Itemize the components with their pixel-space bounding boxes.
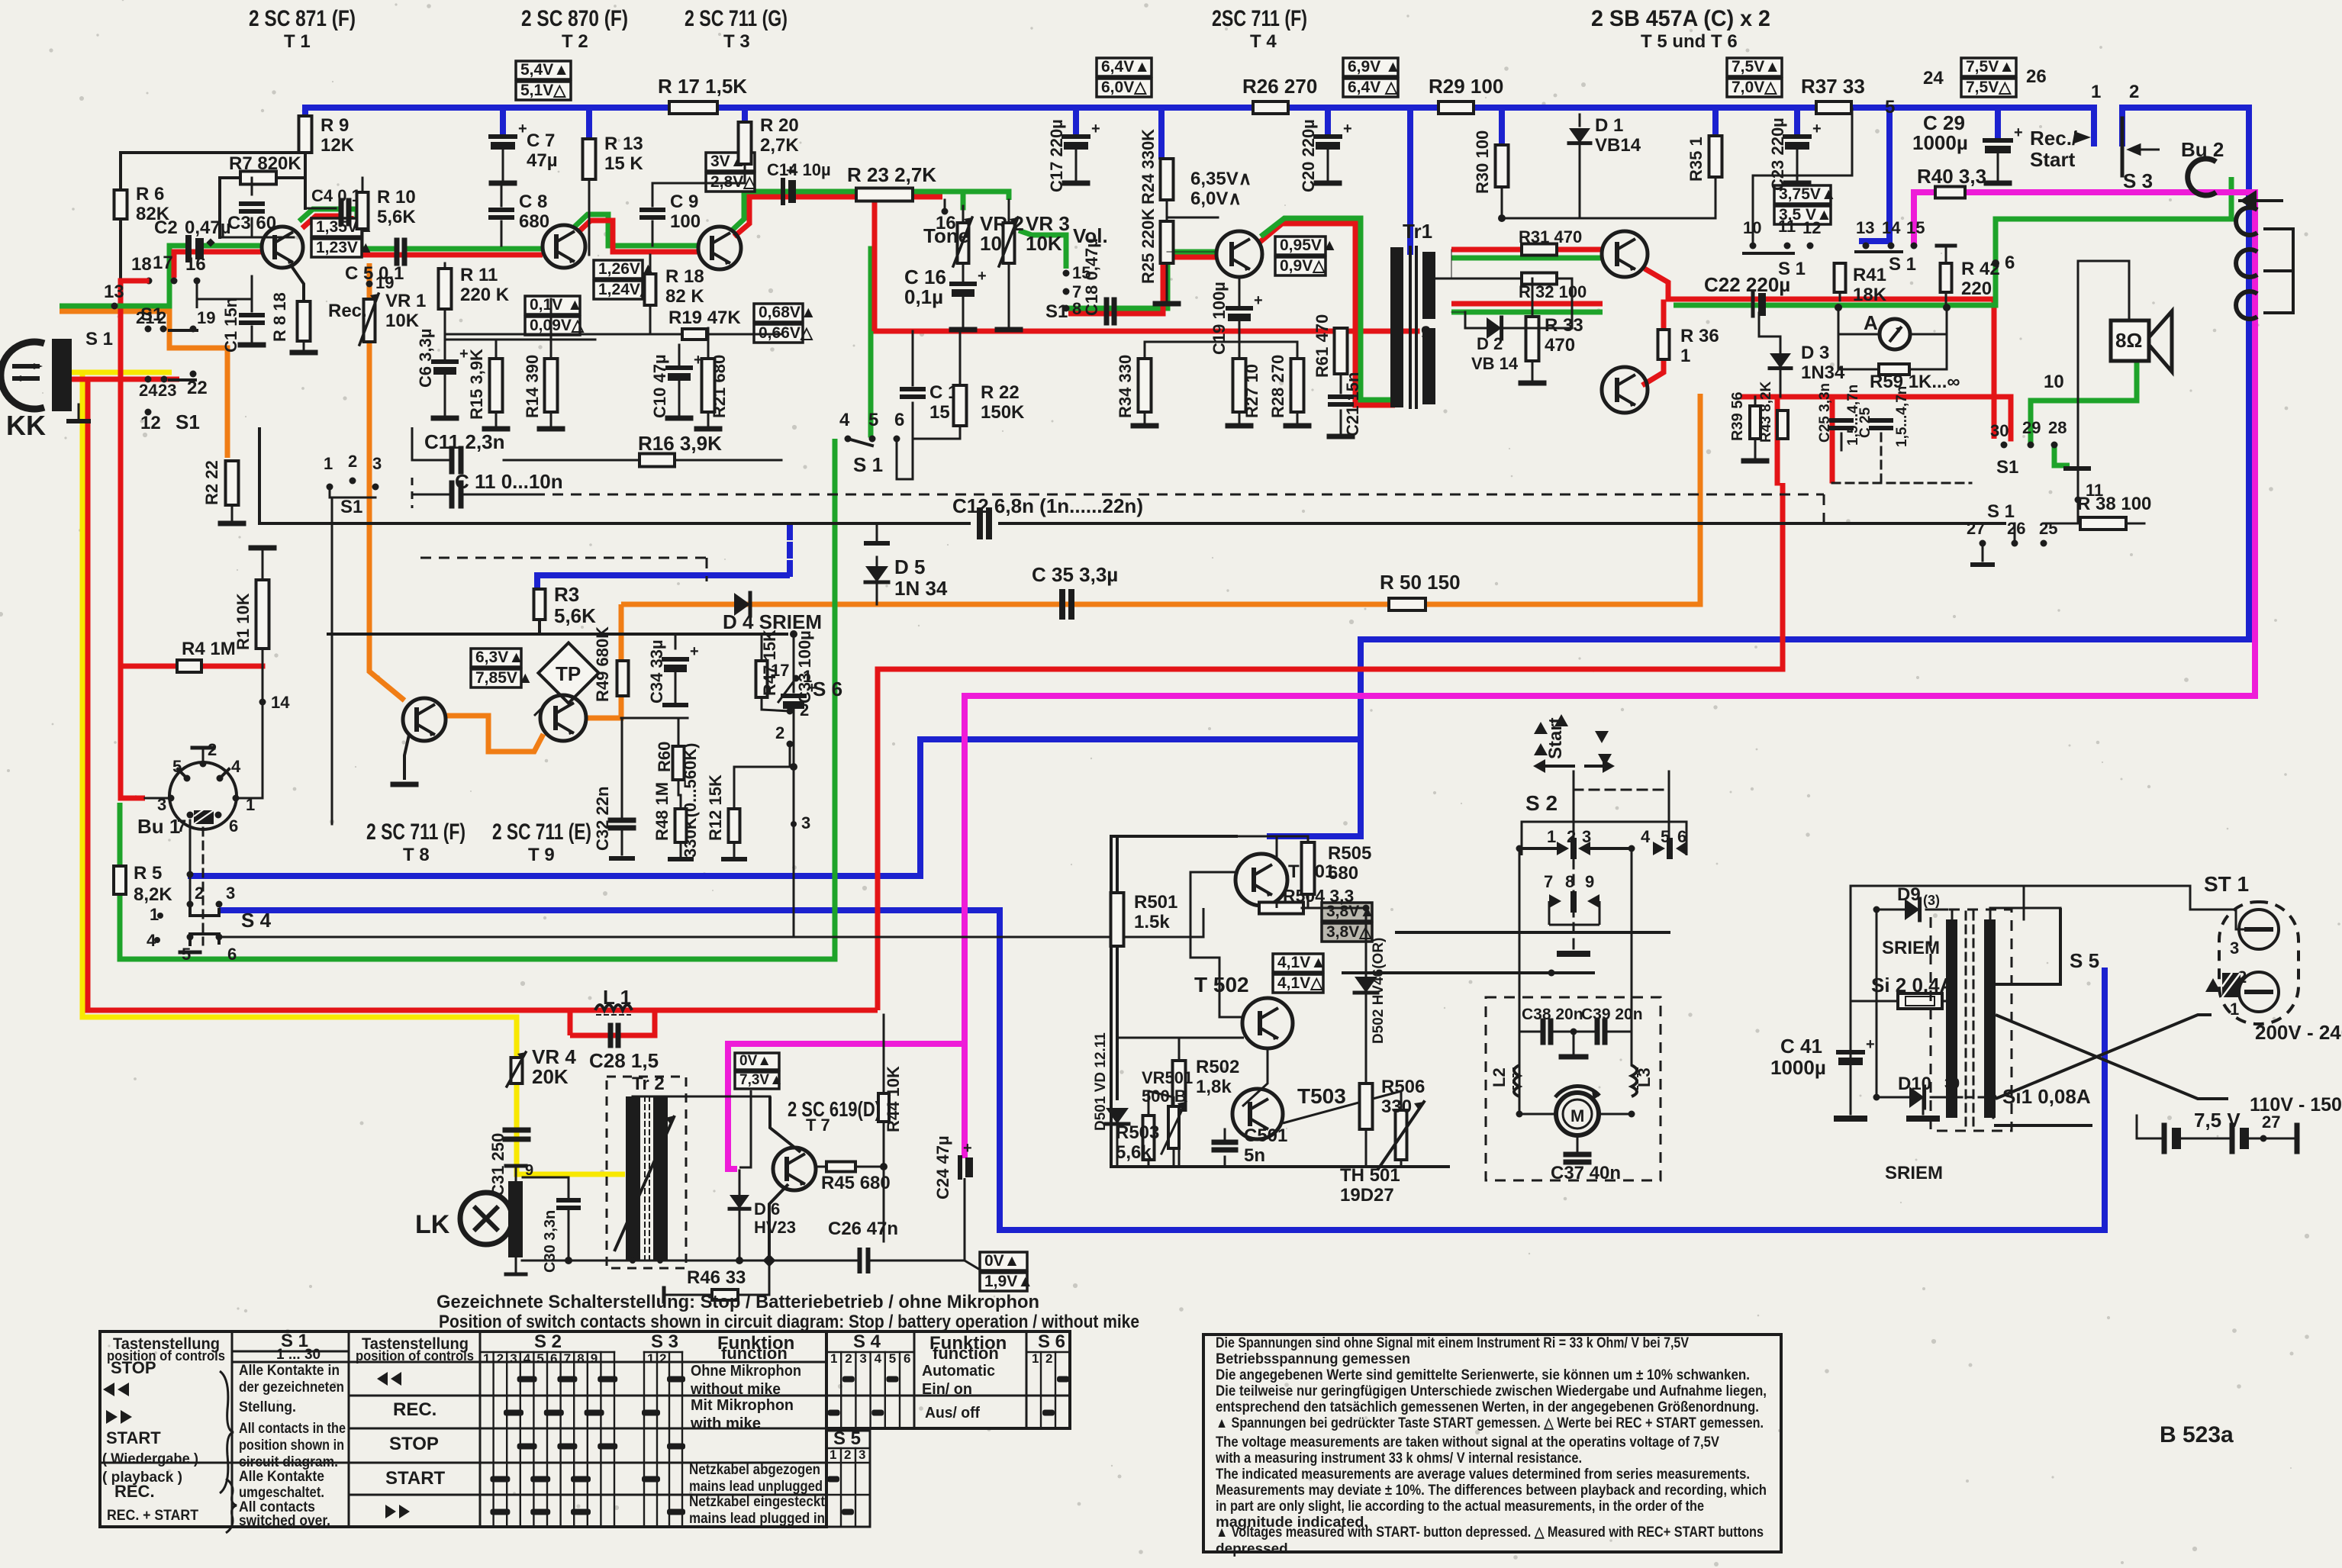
wire red line to contact 9 bbox=[875, 329, 1417, 334]
resistor R504 3,3 bbox=[1259, 903, 1303, 914]
diode D501 VD1211 bbox=[1106, 1108, 1129, 1124]
test point TP diamond bbox=[538, 642, 598, 703]
voltage box 0V/7,3V bbox=[735, 1053, 779, 1070]
svg-text:6,0V∧: 6,0V∧ bbox=[1190, 188, 1242, 209]
resistor R31 470 bbox=[1522, 244, 1557, 256]
svg-text:R4 1M: R4 1M bbox=[182, 639, 236, 659]
svg-text:18K: 18K bbox=[1853, 285, 1887, 305]
svg-text:REC. + START: REC. + START bbox=[107, 1508, 198, 1524]
svg-text:R 9: R 9 bbox=[321, 115, 349, 136]
svg-text:B 523a: B 523a bbox=[2160, 1422, 2234, 1447]
connector Bu1 bbox=[169, 762, 237, 829]
svg-text:+: + bbox=[1343, 121, 1352, 137]
svg-text:Die teilweise nur geringfügige: Die teilweise nur geringfügigen Untersch… bbox=[1216, 1383, 1767, 1399]
svg-text:1: 1 bbox=[1032, 1351, 1039, 1366]
label 6 green node bbox=[1992, 259, 1999, 267]
svg-text:T 502: T 502 bbox=[1194, 973, 1249, 997]
svg-text:Die Spannungen sind ohne Signa: Die Spannungen sind ohne Signal mit eine… bbox=[1216, 1335, 1689, 1351]
svg-text:All contacts in the: All contacts in the bbox=[239, 1421, 346, 1437]
diode D5 1N34 bbox=[876, 523, 878, 540]
capacitor C31 250 bbox=[505, 1128, 528, 1133]
svg-text:82K: 82K bbox=[136, 204, 170, 224]
svg-text:Tr1: Tr1 bbox=[1403, 220, 1432, 243]
resistor R20 2,7K bbox=[739, 122, 752, 164]
svg-text:Stellung.: Stellung. bbox=[239, 1399, 296, 1415]
svg-text:R503: R503 bbox=[1116, 1122, 1159, 1143]
svg-text:S 3: S 3 bbox=[2123, 169, 2153, 192]
svg-text:0,9V△: 0,9V△ bbox=[1280, 257, 1326, 275]
svg-text:10K: 10K bbox=[1026, 232, 1062, 255]
svg-text:6,3V▲: 6,3V▲ bbox=[475, 649, 524, 666]
svg-text:R44 10K: R44 10K bbox=[884, 1066, 903, 1132]
wire blue drop to R30 bbox=[1499, 108, 1505, 143]
svg-text:2SC 711 (F): 2SC 711 (F) bbox=[1212, 6, 1307, 31]
svg-text:C 8: C 8 bbox=[519, 192, 547, 212]
wire D4 node line bbox=[328, 633, 787, 636]
svg-text:9: 9 bbox=[591, 1351, 598, 1366]
svg-text:R46 33: R46 33 bbox=[687, 1267, 746, 1288]
svg-text:3,75V▲: 3,75V▲ bbox=[1779, 185, 1837, 203]
table row mode labels bbox=[377, 1372, 401, 1386]
svg-text:position shown in: position shown in bbox=[239, 1438, 344, 1454]
svg-text:Mit Mikrophon: Mit Mikrophon bbox=[691, 1397, 794, 1414]
svg-text:7: 7 bbox=[177, 816, 186, 836]
wire red C25 network bbox=[1743, 394, 2011, 400]
svg-text:R24 330K: R24 330K bbox=[1139, 129, 1158, 204]
black stub contact 16 bbox=[196, 281, 198, 308]
wire blue bus right section via S3 bbox=[1267, 108, 2249, 836]
svg-text:+: + bbox=[1254, 292, 1263, 309]
svg-text:+: + bbox=[690, 643, 699, 660]
wire red audio T1 to T2 bbox=[302, 216, 342, 228]
svg-text:7,0V△: 7,0V△ bbox=[1732, 79, 1777, 96]
svg-text:1,5...4,7n: 1,5...4,7n bbox=[1894, 386, 1910, 447]
resistor R21 680 bbox=[702, 359, 715, 412]
notes text box bbox=[1203, 1335, 1781, 1552]
svg-text:R29 100: R29 100 bbox=[1429, 75, 1503, 98]
wire yellow VR4-C31 to Tr2 bbox=[517, 1083, 625, 1174]
potentiometer VR1 10K bbox=[366, 281, 373, 288]
resistor R60 330K bbox=[673, 746, 685, 780]
capacitor C25 3,3n bbox=[1831, 418, 1851, 423]
voltage box 7,5V right bbox=[1961, 58, 2016, 76]
svg-text:C37 40n: C37 40n bbox=[1551, 1163, 1621, 1183]
resistor R49 680K bbox=[617, 661, 629, 696]
transformer connections bbox=[1951, 910, 1954, 919]
svg-text:T 8: T 8 bbox=[403, 845, 430, 865]
capacitor C28 1,5 bbox=[608, 1025, 614, 1045]
svg-text:200V - 240V~: 200V - 240V~ bbox=[2255, 1021, 2342, 1044]
resistor R42 220 bbox=[1941, 263, 1952, 292]
svg-text:0,09V△: 0,09V△ bbox=[530, 317, 585, 334]
svg-text:6: 6 bbox=[550, 1351, 557, 1366]
wire T2 emitter bias rail bbox=[445, 339, 595, 341]
svg-text:5: 5 bbox=[868, 410, 878, 430]
svg-text:LK: LK bbox=[415, 1210, 450, 1239]
wire plug top bbox=[2190, 886, 2247, 929]
svg-text:1000µ: 1000µ bbox=[1770, 1056, 1826, 1079]
svg-text:5,4V▲: 5,4V▲ bbox=[520, 61, 569, 79]
svg-text:C39 20n: C39 20n bbox=[1581, 1006, 1643, 1023]
S1 contacts 10 11 12 bbox=[1750, 243, 1757, 250]
dashed selection box bbox=[534, 494, 1824, 496]
wire Tr2 bottom bbox=[632, 1260, 633, 1261]
svg-text:R505: R505 bbox=[1328, 843, 1371, 864]
svg-text:1: 1 bbox=[483, 1351, 490, 1366]
svg-text:C12 6,8n (1n......22n): C12 6,8n (1n......22n) bbox=[952, 494, 1143, 517]
svg-text:D 6: D 6 bbox=[754, 1199, 780, 1219]
transistor T502 bbox=[1242, 998, 1293, 1048]
potentiometer VR2 Tone bbox=[962, 206, 965, 223]
svg-text:R16 3,9K: R16 3,9K bbox=[638, 432, 722, 455]
svg-text:Die angegebenen Werte sind gem: Die angegebenen Werte sind gemittelte Se… bbox=[1216, 1367, 1750, 1383]
potentiometer VR4 20K bbox=[511, 1058, 523, 1083]
transformer Tr2 dashed box bbox=[607, 1077, 686, 1268]
svg-text:R61 470: R61 470 bbox=[1313, 314, 1332, 378]
svg-text:1.5k: 1.5k bbox=[1134, 912, 1170, 932]
voltage box 1,35V bbox=[311, 218, 362, 237]
svg-text:6: 6 bbox=[229, 816, 238, 836]
svg-text:2 SC 711 (G): 2 SC 711 (G) bbox=[685, 6, 788, 31]
wire T502 base link bbox=[1190, 916, 1242, 1017]
svg-text:2: 2 bbox=[845, 1351, 852, 1366]
wire C24 to measure box bbox=[965, 1178, 980, 1270]
svg-text:C22 220µ: C22 220µ bbox=[1704, 273, 1790, 296]
resistor R12 15K bbox=[729, 809, 740, 842]
capacitor C16 0,1u bbox=[952, 282, 974, 286]
resistor R10 5,6K bbox=[357, 192, 369, 229]
capacitor C15 15n bbox=[912, 331, 914, 385]
capacitor C35 3,3u bbox=[1059, 592, 1065, 617]
svg-text:6,35V∧: 6,35V∧ bbox=[1190, 169, 1252, 189]
svg-text:C 11 0...10n: C 11 0...10n bbox=[455, 470, 563, 493]
resistor R502 1,8k bbox=[1173, 1061, 1186, 1110]
svg-text:C26 47n: C26 47n bbox=[828, 1219, 898, 1239]
svg-text:entsprechend den tatsächlich g: entsprechend den tatsächlich gemessenen … bbox=[1216, 1399, 1759, 1415]
svg-text:12: 12 bbox=[140, 413, 161, 433]
svg-text:+: + bbox=[2014, 124, 2023, 141]
wire green audio path head to T1 bbox=[60, 246, 188, 306]
svg-text:R 20: R 20 bbox=[760, 115, 799, 136]
wire green+red T4 to Tr1 bbox=[1259, 224, 1395, 405]
wire red from head lower contact bbox=[70, 377, 179, 382]
S2 contact box bbox=[1522, 822, 1686, 855]
svg-text:Alle Kontakte in: Alle Kontakte in bbox=[239, 1363, 340, 1379]
resistor R37 33 bbox=[1816, 101, 1851, 114]
resistor R45 680 bbox=[826, 1162, 855, 1172]
S4 lower contacts 5 6 bbox=[187, 934, 194, 941]
svg-text:R59 1K...∞: R59 1K...∞ bbox=[1870, 372, 1960, 392]
wire blue drop to C7 bbox=[500, 108, 506, 136]
svg-text:0,68V▲: 0,68V▲ bbox=[759, 304, 817, 321]
svg-text:2: 2 bbox=[2129, 82, 2139, 102]
svg-text:R14 390: R14 390 bbox=[523, 355, 542, 418]
S2 direction arrows bbox=[1533, 759, 1545, 773]
mains transformer core bbox=[1946, 919, 1957, 1118]
svg-text:T 7: T 7 bbox=[806, 1116, 830, 1135]
transistor T6 bbox=[1602, 367, 1648, 413]
svg-text:1: 1 bbox=[647, 1351, 654, 1366]
wire orange from head to R2 bbox=[60, 311, 227, 458]
svg-text:C24 47µ: C24 47µ bbox=[933, 1135, 952, 1199]
svg-text:Ein/ on: Ein/ on bbox=[922, 1381, 972, 1398]
svg-text:without mike: without mike bbox=[690, 1381, 781, 1398]
svg-text:T503: T503 bbox=[1297, 1084, 1346, 1108]
S1 contacts 15/7/8 bbox=[1063, 270, 1070, 277]
capacitor C18 0,47u bbox=[1104, 300, 1110, 323]
svg-text:Position of switch contacts: Position of switch contacts shown in cir… bbox=[439, 1312, 1139, 1332]
svg-text:15: 15 bbox=[1906, 218, 1925, 237]
contact 13 on head pair bbox=[111, 303, 118, 310]
svg-text:ST 1: ST 1 bbox=[2204, 872, 2249, 896]
wire red branch to R4/R1 bbox=[121, 664, 263, 669]
svg-text:5: 5 bbox=[1885, 97, 1895, 118]
svg-text:100: 100 bbox=[670, 211, 701, 232]
svg-text:T 2: T 2 bbox=[562, 31, 588, 52]
svg-text:T 4: T 4 bbox=[1250, 31, 1277, 52]
resistor R50 150 bbox=[1389, 598, 1425, 610]
wire S1-10 to bus area bbox=[1753, 108, 1852, 246]
svg-text:mains lead plugged in: mains lead plugged in bbox=[689, 1511, 825, 1527]
svg-text:C18 0,47µ: C18 0,47µ bbox=[1082, 238, 1101, 316]
diode D6 HV23 bbox=[739, 1170, 741, 1195]
svg-text:3: 3 bbox=[510, 1351, 517, 1366]
wire red long left erase feed bbox=[88, 379, 570, 1010]
svg-text:2: 2 bbox=[659, 1351, 666, 1366]
diode D4 SRIEM bbox=[734, 593, 750, 616]
svg-text:R12 15K: R12 15K bbox=[706, 774, 725, 841]
svg-text:C 7: C 7 bbox=[527, 130, 555, 151]
wire blue S5 to S4 contact 3 bbox=[219, 910, 2105, 1230]
svg-text:2: 2 bbox=[348, 452, 357, 471]
svg-text:0,95V▲: 0,95V▲ bbox=[1280, 237, 1338, 254]
svg-text:47µ: 47µ bbox=[527, 150, 558, 171]
svg-text:24: 24 bbox=[139, 381, 158, 400]
svg-text:with mike: with mike bbox=[690, 1415, 761, 1432]
resistor R29 100 bbox=[1438, 101, 1474, 114]
resistor R44 10K bbox=[878, 1093, 889, 1122]
svg-text:2: 2 bbox=[157, 308, 166, 327]
svg-text:8: 8 bbox=[1072, 299, 1081, 318]
voltage box 0,68V bbox=[754, 304, 803, 322]
svg-text:R28 270: R28 270 bbox=[1268, 355, 1287, 418]
svg-text:2: 2 bbox=[775, 723, 784, 742]
svg-text:2 SB 457A (C) x 2: 2 SB 457A (C) x 2 bbox=[1591, 6, 1770, 31]
svg-text:470: 470 bbox=[1545, 335, 1575, 356]
svg-text:1: 1 bbox=[2091, 82, 2101, 102]
ground T8 bbox=[404, 735, 409, 780]
resistor R39 56 bbox=[1750, 406, 1761, 439]
wire red audio path head to T1 bbox=[174, 252, 263, 278]
svg-text:1,5...4,7n: 1,5...4,7n bbox=[1845, 385, 1861, 446]
svg-text:S1: S1 bbox=[1045, 301, 1068, 322]
svg-text:Bu 1: Bu 1 bbox=[137, 815, 180, 838]
resistor R34 330 bbox=[1139, 359, 1152, 412]
svg-text:M: M bbox=[1570, 1106, 1584, 1125]
table S3 bars bbox=[667, 1376, 685, 1383]
S1 contacts 1 2 3 below VR1 bbox=[327, 484, 333, 491]
wire +7.5V blue supply bus bbox=[305, 108, 2094, 122]
svg-text:R 6: R 6 bbox=[136, 184, 164, 204]
wire green S1-28 ground hook bbox=[2054, 445, 2070, 465]
wire Bu1 pin1 to R1 bbox=[236, 732, 263, 798]
svg-text:0,1µ: 0,1µ bbox=[904, 285, 943, 308]
capacitor C10 47u bbox=[678, 359, 681, 366]
svg-text:R26 270: R26 270 bbox=[1242, 75, 1317, 98]
svg-text:220 K: 220 K bbox=[460, 285, 510, 305]
svg-text:14: 14 bbox=[271, 693, 290, 712]
capacitor C11 2,3n bbox=[449, 449, 455, 472]
svg-text:S 6: S 6 bbox=[1038, 1331, 1065, 1352]
wire blue drop to C17 bbox=[1073, 108, 1079, 136]
svg-text:R25 220K: R25 220K bbox=[1139, 208, 1158, 284]
svg-text:R 33: R 33 bbox=[1545, 315, 1583, 336]
svg-text:switched over.: switched over. bbox=[239, 1513, 330, 1529]
svg-text:6: 6 bbox=[894, 410, 904, 430]
svg-text:REC.: REC. bbox=[114, 1482, 155, 1501]
svg-text:R21 680: R21 680 bbox=[710, 355, 729, 418]
resistor R503 5,6k bbox=[1143, 1116, 1155, 1160]
resistor R1 10K bbox=[262, 551, 264, 580]
diode D1 VB14 bbox=[1579, 114, 1581, 126]
svg-text:6,9V ▲: 6,9V ▲ bbox=[1348, 58, 1401, 76]
resistor R19 47K bbox=[446, 333, 682, 336]
transistor T1 bbox=[262, 227, 303, 268]
wire blue drop to R20 bbox=[742, 108, 748, 122]
diode D3 1N34 bbox=[1780, 336, 1782, 353]
wire blue drop to R13 bbox=[586, 108, 592, 137]
S1 contacts 4 5 6 bbox=[845, 436, 852, 443]
svg-text:D9: D9 bbox=[1897, 884, 1921, 905]
wire green S1-29 to speaker bbox=[2031, 362, 2137, 445]
resistor R43 8,2K bbox=[1777, 411, 1788, 439]
svg-text:C11 2,3n: C11 2,3n bbox=[424, 430, 505, 453]
svg-text:6: 6 bbox=[227, 945, 237, 964]
svg-text:C21 15n: C21 15n bbox=[1343, 372, 1362, 436]
svg-text:function: function bbox=[721, 1344, 788, 1363]
svg-text:T 9: T 9 bbox=[528, 845, 555, 865]
switch S4 contacts bbox=[187, 871, 194, 878]
table2 bars bbox=[842, 1376, 855, 1383]
wire T7 collector bbox=[770, 1096, 801, 1152]
svg-text:R 5: R 5 bbox=[134, 863, 162, 884]
svg-text:REC.: REC. bbox=[393, 1399, 437, 1420]
svg-text:C501: C501 bbox=[1244, 1125, 1287, 1146]
svg-text:13: 13 bbox=[104, 282, 124, 302]
capacitor C32 22n bbox=[610, 818, 633, 823]
coil LK erase head bbox=[460, 1193, 512, 1244]
capacitor C19 100u bbox=[1239, 277, 1241, 305]
svg-text:Gezeichnete Schalterstellung:: Gezeichnete Schalterstellung: Stop / Bat… bbox=[437, 1292, 1039, 1312]
resistor R33 470 bbox=[1532, 279, 1534, 317]
svg-text:VR501: VR501 bbox=[1142, 1068, 1193, 1087]
S1 contact 16 mid bbox=[942, 208, 949, 215]
svg-text:2: 2 bbox=[844, 1447, 851, 1462]
wire blue drop to S1 contact 14 bbox=[1859, 108, 1889, 241]
capacitor C6 3,3u bbox=[433, 359, 456, 364]
wire T1 bias top bbox=[121, 151, 305, 154]
resistor R30 100 bbox=[1496, 145, 1509, 187]
speaker 8ohm bbox=[2111, 320, 2149, 361]
svg-text:R7 820K: R7 820K bbox=[229, 153, 301, 174]
svg-text:6,4V▲: 6,4V▲ bbox=[1101, 58, 1150, 76]
wire red riser to output network bbox=[878, 483, 1783, 1010]
svg-text:S 2: S 2 bbox=[1525, 791, 1558, 815]
capacitor C9 100 bbox=[642, 208, 663, 212]
svg-text:5n: 5n bbox=[1244, 1145, 1265, 1166]
thermistor TH501 19D27 bbox=[1396, 1110, 1407, 1160]
svg-text:( Wiedergabe ): ( Wiedergabe ) bbox=[102, 1451, 198, 1467]
svg-text:1N34: 1N34 bbox=[1801, 362, 1845, 383]
svg-text:circuit diagram.: circuit diagram. bbox=[239, 1454, 338, 1470]
capacitor C22 220u bbox=[1751, 293, 1755, 316]
wire green audio T1 to T2 via C4/C5 bbox=[299, 209, 340, 221]
svg-text:function: function bbox=[933, 1344, 999, 1363]
LK contacts bbox=[515, 1167, 517, 1181]
svg-text:4,1V△: 4,1V△ bbox=[1277, 974, 1323, 992]
capacitor C7 47u bbox=[491, 134, 515, 139]
resistor R3 5,6K bbox=[534, 589, 546, 620]
table S5 block bbox=[826, 1431, 870, 1527]
wire Tr2 top rail bbox=[633, 1096, 770, 1098]
svg-text:Tone: Tone bbox=[923, 224, 969, 247]
svg-text:C 41: C 41 bbox=[1780, 1035, 1822, 1058]
svg-text:8Ω: 8Ω bbox=[2115, 329, 2142, 352]
wire T7 emitter bbox=[769, 1184, 788, 1261]
wire Tr1 secondary taps bbox=[1435, 278, 1451, 280]
wire red T6 via R36 bbox=[1642, 361, 1664, 385]
svg-text:10K: 10K bbox=[385, 311, 420, 331]
svg-text:C30 3,3n: C30 3,3n bbox=[542, 1210, 559, 1273]
capacitor C5 0,1 bbox=[395, 240, 400, 263]
svg-text:12: 12 bbox=[1802, 218, 1821, 237]
svg-text:R 36: R 36 bbox=[1680, 326, 1719, 346]
svg-text:C14 10µ: C14 10µ bbox=[767, 160, 831, 179]
resistor R5 8,2K bbox=[114, 866, 126, 894]
meter loop wiring bbox=[1838, 307, 1879, 369]
svg-text:R60: R60 bbox=[655, 742, 674, 772]
transistor T8 bbox=[403, 698, 446, 741]
svg-text:1: 1 bbox=[803, 667, 812, 686]
capacitor C4 0,1u bbox=[339, 201, 344, 224]
svg-text:S1: S1 bbox=[340, 497, 362, 517]
svg-text:SRIEM: SRIEM bbox=[1885, 1163, 1943, 1183]
wire orange T8-T9 link bbox=[446, 716, 543, 752]
wire middle links bbox=[259, 523, 260, 634]
resistor R35 1 bbox=[1709, 136, 1722, 177]
svg-text:5,1V△: 5,1V△ bbox=[520, 82, 566, 99]
svg-text:R 32 100: R 32 100 bbox=[1519, 282, 1587, 301]
svg-text:19: 19 bbox=[197, 308, 215, 327]
svg-text:Rec./: Rec./ bbox=[2030, 127, 2077, 150]
motor block dashed bbox=[1486, 997, 1661, 1180]
wire red from S1-21 to R4/R1 bbox=[121, 280, 145, 798]
svg-text:TH 501: TH 501 bbox=[1340, 1165, 1400, 1186]
psu left rail bbox=[1850, 886, 1852, 1114]
S1 contacts 30 29 28 bbox=[2001, 442, 2008, 449]
voltage box 0,1V bbox=[525, 296, 580, 314]
svg-text:3: 3 bbox=[859, 1351, 866, 1366]
svg-text:R 50 150: R 50 150 bbox=[1380, 571, 1461, 594]
svg-text:S 1: S 1 bbox=[85, 329, 113, 349]
svg-text:680: 680 bbox=[519, 211, 549, 232]
svg-text:+: + bbox=[1812, 121, 1822, 137]
svg-text:6,4V △: 6,4V △ bbox=[1348, 79, 1398, 96]
table2 S4/Funktion/S6 bbox=[826, 1331, 1070, 1428]
motor mid ground bbox=[1570, 1029, 1577, 1035]
wire blue drop to C20 bbox=[1325, 108, 1331, 136]
wire orange bias oscillator feed via VR1 bbox=[369, 263, 404, 700]
